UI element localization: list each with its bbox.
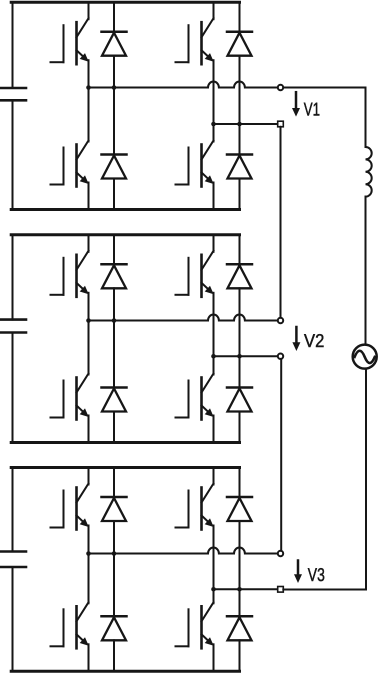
node: cell 3 left diode junction bbox=[112, 551, 117, 556]
wire: cell 2 right-leg midpoint line bbox=[214, 355, 278, 357]
transistor Q31 (cell 3 upper-left IGBT) bbox=[51, 484, 89, 530]
wire: cell 1 bottom bus bbox=[11, 208, 239, 211]
wire: cell 3 bottom bus bbox=[11, 670, 239, 673]
wire: cell 1 right leg bbox=[213, 2, 215, 209]
node: cell 1 left diode junction bbox=[112, 85, 117, 90]
terminal: cell 1 output - (square) bbox=[278, 121, 284, 127]
node: cell 3 left leg midpoint bbox=[86, 551, 91, 556]
transistor Q32 (cell 3 lower-left IGBT) bbox=[51, 602, 89, 648]
wire: cascade link cell1 to cell2 bbox=[280, 127, 282, 318]
capacitor C2 bbox=[0, 320, 26, 333]
wire: cascade link cell2 to cell3 bbox=[280, 359, 282, 550]
diode D13 (cell 1 upper-right) bbox=[227, 32, 252, 56]
node: cell 2 left leg midpoint bbox=[86, 318, 91, 323]
node: cell 1 right diode junction bbox=[237, 122, 242, 127]
wire: cell 3 left rail upper bbox=[12, 468, 14, 552]
wire: cell 2 left-leg midpoint line (hops over right legs) bbox=[89, 315, 278, 321]
wire: cell 1 left rail upper bbox=[12, 2, 14, 88]
arrow: V3 reference direction bbox=[294, 561, 302, 584]
diode D33 (cell 3 upper-right) bbox=[227, 497, 252, 521]
transistor Q23 (cell 2 upper-right IGBT) bbox=[176, 251, 214, 297]
terminal: cell 3 output - (square) bbox=[278, 587, 284, 593]
ac source Vs bbox=[353, 345, 377, 369]
wire: cell 1 right-leg midpoint line bbox=[214, 123, 278, 125]
wire: cell 1 left rail lower bbox=[12, 100, 14, 209]
node: cell 1 right leg midpoint bbox=[211, 122, 216, 127]
wire: cell 1 right diode leg bbox=[239, 2, 241, 209]
inductor L (filter) bbox=[366, 147, 372, 197]
wire: cell 3 top bus bbox=[11, 466, 239, 469]
node: cell 2 right leg midpoint bbox=[211, 354, 216, 359]
arrow: V2 reference direction bbox=[292, 327, 300, 351]
wire: cell 2 right diode leg bbox=[239, 235, 241, 443]
transistor Q34 (cell 3 lower-right IGBT) bbox=[176, 602, 214, 648]
wire: cell 2 bottom bus bbox=[11, 441, 239, 444]
arrow: V1 reference direction bbox=[292, 92, 300, 116]
wire: cell 2 left rail upper bbox=[12, 235, 14, 320]
wire: cell 1 left diode leg bbox=[113, 2, 115, 209]
wire: cell 3 right leg bbox=[213, 468, 215, 672]
transistor Q24 (cell 2 lower-right IGBT) bbox=[176, 374, 214, 420]
diode D34 (cell 3 lower-right) bbox=[227, 616, 252, 640]
svg-text:V2: V2 bbox=[304, 330, 324, 351]
wire: cell 3 left leg bbox=[88, 468, 90, 672]
capacitor C3 bbox=[0, 552, 26, 568]
transistor Q13 (cell 1 upper-right IGBT) bbox=[176, 18, 214, 64]
wire: cell 2 left rail lower bbox=[12, 333, 14, 443]
diode D32 (cell 3 lower-left) bbox=[102, 616, 127, 640]
diode D23 (cell 2 upper-right) bbox=[227, 264, 252, 288]
wire: cell 1 left leg bbox=[88, 2, 90, 209]
terminal: cell 1 output + (circle) bbox=[278, 85, 283, 90]
wire: bottom return to cell 3 bbox=[283, 589, 366, 591]
wire: cell 2 left leg bbox=[88, 235, 90, 443]
wire: cell 1 left-leg midpoint line (hops over right legs) bbox=[89, 82, 278, 88]
wire: cell 3 right diode leg bbox=[239, 468, 241, 672]
transistor Q21 (cell 2 upper-left IGBT) bbox=[51, 251, 89, 297]
node: cell 2 right diode junction bbox=[237, 354, 242, 359]
node: cell 2 left diode junction bbox=[112, 318, 117, 323]
wire: cell 2 left diode leg bbox=[113, 235, 115, 443]
wire: cell 1 top bus bbox=[11, 1, 239, 4]
diode D22 (cell 2 lower-left) bbox=[102, 388, 127, 412]
transistor Q14 (cell 1 lower-right IGBT) bbox=[176, 141, 214, 187]
diode D24 (cell 2 lower-right) bbox=[227, 388, 252, 412]
wire: cell 1 output to load bus bbox=[283, 87, 365, 89]
wire: cell 3 left rail lower bbox=[12, 567, 14, 671]
terminal: cell 2 output - (circle) bbox=[278, 354, 283, 359]
svg-text:V1: V1 bbox=[304, 99, 320, 120]
diode D31 (cell 3 upper-left) bbox=[102, 497, 127, 521]
terminal: cell 3 output + (circle) bbox=[278, 551, 283, 556]
wire: right bus lower bbox=[365, 369, 367, 590]
wire: cell 3 left-leg midpoint line (hops over right legs) bbox=[89, 548, 278, 554]
diode D21 (cell 2 upper-left) bbox=[102, 264, 127, 288]
transistor Q33 (cell 3 upper-right IGBT) bbox=[176, 484, 214, 530]
node: cell 3 right leg midpoint bbox=[211, 587, 216, 592]
diode D12 (cell 1 lower-left) bbox=[102, 155, 127, 179]
transistor Q22 (cell 2 lower-left IGBT) bbox=[51, 374, 89, 420]
wire: cell 3 left diode leg bbox=[113, 468, 115, 672]
diode D14 (cell 1 lower-right) bbox=[227, 155, 252, 179]
wire: cell 3 right-leg midpoint line bbox=[214, 588, 278, 590]
wire: right bus upper bbox=[365, 88, 367, 148]
wire: cell 2 right leg bbox=[213, 235, 215, 443]
transistor Q11 (cell 1 upper-left IGBT) bbox=[51, 18, 89, 64]
diode D11 (cell 1 upper-left) bbox=[102, 32, 127, 56]
transistor Q12 (cell 1 lower-left IGBT) bbox=[51, 141, 89, 187]
svg-text:V3: V3 bbox=[308, 564, 325, 585]
capacitor C1 bbox=[0, 88, 26, 100]
terminal: cell 2 output + (circle) bbox=[278, 318, 283, 323]
wire: right bus middle bbox=[365, 197, 367, 345]
node: cell 3 right diode junction bbox=[237, 587, 242, 592]
node: cell 1 left leg midpoint bbox=[86, 85, 91, 90]
wire: cell 2 top bus bbox=[11, 233, 239, 236]
